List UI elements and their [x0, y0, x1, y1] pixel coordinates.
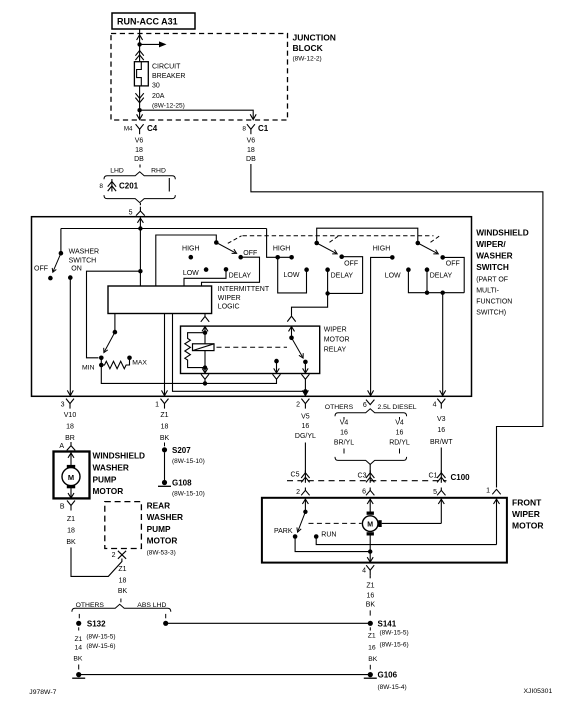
svg-text:WINDSHIELD: WINDSHIELD: [93, 451, 146, 461]
svg-text:C5: C5: [291, 472, 300, 479]
svg-text:REAR: REAR: [147, 501, 171, 511]
LHD RHD split bracket C201: [139, 165, 141, 168]
svg-text:16: 16: [367, 592, 375, 599]
relay coil resistor: [185, 333, 205, 368]
switch 2 LOW contact: [304, 267, 309, 272]
svg-text:LOW: LOW: [385, 273, 401, 280]
svg-text:WASHER: WASHER: [69, 248, 99, 255]
svg-text:C100: C100: [451, 473, 471, 482]
svg-text:Z1: Z1: [74, 636, 82, 643]
svg-text:1: 1: [486, 488, 490, 495]
svg-text:WIPER: WIPER: [512, 509, 540, 519]
wire washer B to rear washer connector: [71, 548, 122, 577]
washer switch feed wire: [60, 229, 62, 254]
wire logic to relay coil connector: [204, 314, 206, 317]
wire OFF3 to rail: [443, 257, 465, 292]
svg-text:6: 6: [363, 402, 367, 409]
delay pot wiper blade: [104, 332, 115, 352]
svg-text:SWITCH): SWITCH): [476, 310, 506, 317]
svg-text:4: 4: [433, 402, 437, 409]
svg-text:CIRCUIT: CIRCUIT: [152, 64, 181, 71]
svg-text:V4: V4: [340, 419, 349, 426]
svg-text:BLOCK: BLOCK: [293, 43, 324, 53]
svg-text:(8W-15-10): (8W-15-10): [172, 491, 205, 498]
svg-text:2: 2: [296, 489, 300, 496]
svg-text:S207: S207: [172, 446, 191, 455]
svg-text:18: 18: [135, 147, 143, 154]
delay pot wiper pivot: [113, 330, 118, 335]
wire pin1 dash: [164, 443, 166, 447]
svg-text:2: 2: [296, 402, 300, 409]
relay blade: [292, 338, 303, 357]
switch2 output rail: [328, 292, 363, 294]
svg-text:V4: V4: [395, 419, 404, 426]
switch 1 HIGH contact: [189, 255, 194, 260]
wire pivot2 to pivot3 rail: [317, 228, 418, 243]
svg-text:RUN: RUN: [321, 532, 336, 539]
OTHERS ABS-LHD split bracket: [72, 604, 171, 612]
svg-text:M: M: [68, 473, 74, 482]
wire S141 to S132 branch: [166, 622, 371, 624]
B+ rail wire: [61, 228, 267, 230]
svg-text:4: 4: [362, 568, 366, 575]
svg-text:16: 16: [437, 427, 445, 434]
wire feed to LOW2 contact: [278, 257, 307, 293]
svg-text:OTHERS: OTHERS: [76, 602, 105, 609]
wire branch to C1: [140, 110, 254, 119]
wire to pin 4 exit: [369, 552, 371, 562]
wire logic to switch1 pivot: [156, 235, 217, 286]
park switch dashed link to motor: [309, 522, 362, 524]
node switch3 output junction: [441, 291, 445, 295]
wire switch2 output to wiper relay: [292, 293, 328, 315]
wire logic output to pin 1: [164, 314, 166, 396]
svg-text:DELAY: DELAY: [430, 273, 453, 280]
wire washer ON to pin 3: [69, 278, 71, 396]
node pin2 rail junction: [303, 389, 307, 393]
svg-text:ON: ON: [71, 265, 82, 272]
pin 6 merge bracket: [335, 457, 407, 465]
relay coil: [204, 333, 206, 368]
wire pin1 to RUN contact: [496, 499, 498, 545]
connector into relay top right: [287, 316, 295, 321]
intermittent wiper logic box: [108, 286, 212, 314]
svg-text:18: 18: [161, 424, 169, 431]
svg-text:LOW: LOW: [284, 272, 300, 279]
relay armature pivot: [289, 336, 294, 341]
wire relay coil bottom exit: [204, 368, 206, 373]
rear washer pump motor dashed box: [105, 502, 142, 549]
svg-text:HIGH: HIGH: [273, 245, 291, 252]
svg-text:6: 6: [362, 488, 366, 495]
svg-text:BR/YL: BR/YL: [334, 440, 354, 447]
front wiper motor armature: [362, 516, 378, 532]
svg-text:18: 18: [67, 527, 75, 534]
wire relay right contact exit: [304, 362, 306, 373]
wire to delay pot MIN: [87, 271, 141, 358]
svg-text:MAX: MAX: [132, 360, 147, 367]
svg-text:Z1: Z1: [118, 566, 126, 573]
node motor output junction: [368, 549, 372, 553]
svg-text:SWITCH: SWITCH: [476, 262, 509, 272]
wire DELAY1 to logic: [184, 269, 226, 286]
splice S207: [162, 447, 167, 452]
svg-text:RUN-ACC A31: RUN-ACC A31: [117, 17, 178, 27]
wire pin6 to motor: [369, 499, 371, 512]
svg-text:DB: DB: [246, 156, 256, 163]
svg-text:MIN: MIN: [82, 364, 95, 371]
svg-text:RELAY: RELAY: [324, 347, 347, 354]
svg-text:30: 30: [152, 83, 160, 90]
svg-text:WASHER: WASHER: [476, 251, 512, 261]
svg-text:BK: BK: [73, 655, 83, 662]
svg-text:J978W-7: J978W-7: [29, 689, 56, 696]
svg-text:MOTOR: MOTOR: [512, 521, 543, 531]
svg-text:DELAY: DELAY: [331, 272, 354, 279]
washer pump motor armature: [70, 453, 72, 468]
switch 3 OFF contact: [440, 255, 445, 260]
switch 2 blade: [317, 243, 336, 253]
ground rail S132 to G106: [76, 672, 81, 677]
svg-text:B: B: [60, 504, 65, 511]
wire from RUN-ACC A31 into junction block: [139, 29, 141, 62]
svg-text:S141: S141: [378, 619, 397, 628]
svg-text:LOW: LOW: [183, 270, 199, 277]
svg-text:2.5L DIESEL: 2.5L DIESEL: [378, 404, 417, 411]
switch 1 LOW contact: [204, 267, 209, 272]
wire DELAY2 to rail: [327, 270, 329, 294]
svg-text:1: 1: [155, 402, 159, 409]
splice S141: [368, 621, 373, 626]
svg-text:XJI05301: XJI05301: [524, 688, 553, 695]
windshield wiper washer switch box: [32, 217, 472, 397]
svg-text:(8W-12-25): (8W-12-25): [152, 103, 185, 110]
svg-text:OFF: OFF: [446, 261, 460, 268]
delay pot resistor: [99, 363, 104, 368]
svg-text:OTHERS: OTHERS: [325, 404, 354, 411]
switch 1 OFF contact: [238, 255, 243, 260]
node feed junction: [137, 42, 141, 46]
svg-text:(8W-15-5): (8W-15-5): [86, 634, 115, 641]
wire switch3 output to pin 4: [442, 293, 444, 396]
svg-text:V5: V5: [301, 414, 310, 421]
RHD wire stub: [168, 178, 170, 192]
fuse box label RUN-ACC A31: [112, 13, 195, 29]
wire relay left contact exit: [276, 361, 278, 373]
wire LOW3 to rail: [408, 270, 464, 293]
switch 1 DELAY contact: [224, 267, 229, 272]
switch 3 HIGH contact: [390, 255, 395, 260]
connector chevrons on feed wire: [135, 51, 143, 56]
switch 3 pivot: [416, 241, 421, 246]
switch 1 blade: [216, 243, 235, 253]
svg-text:18: 18: [66, 424, 74, 431]
svg-text:MOTOR: MOTOR: [324, 337, 350, 344]
svg-text:A: A: [59, 443, 64, 450]
wire pin4 to C100: [440, 448, 442, 474]
svg-text:C1: C1: [429, 472, 438, 479]
svg-text:C1: C1: [258, 124, 269, 133]
relay contact right: [303, 360, 308, 365]
svg-text:MOTOR: MOTOR: [93, 486, 124, 496]
wire rail to pin 2: [304, 391, 306, 395]
svg-text:C201: C201: [119, 182, 139, 191]
svg-text:14: 14: [74, 645, 82, 652]
svg-text:RHD: RHD: [151, 167, 166, 174]
svg-text:C4: C4: [147, 124, 158, 133]
switch 3 blade: [418, 243, 437, 253]
wire pin6 merge to C100: [369, 464, 371, 473]
svg-text:LOGIC: LOGIC: [218, 304, 240, 311]
svg-text:BR/WT: BR/WT: [430, 439, 453, 446]
node delay pot feed junction: [138, 269, 142, 273]
svg-text:OFF: OFF: [344, 260, 358, 267]
connector C100 dashed line: [287, 480, 447, 482]
node B+ rail junction: [138, 226, 142, 230]
svg-text:MULTI-: MULTI-: [476, 288, 499, 295]
ganged switch dashed link: [228, 236, 242, 244]
svg-text:WASHER: WASHER: [93, 463, 129, 473]
svg-text:WIPER: WIPER: [218, 295, 241, 302]
svg-text:Z1: Z1: [160, 412, 168, 419]
svg-text:S132: S132: [87, 619, 106, 628]
relay contact left: [274, 359, 279, 364]
wire motor bottom to pin4 node: [369, 536, 371, 552]
switch 2 OFF contact: [339, 254, 344, 259]
node ABS LHD branch: [163, 621, 168, 626]
svg-text:OFF: OFF: [243, 250, 257, 257]
wire main feed down: [139, 229, 141, 287]
node relay coil bottom junction: [203, 365, 207, 369]
svg-text:G108: G108: [172, 479, 192, 488]
svg-text:(8W-53-3): (8W-53-3): [147, 550, 176, 557]
svg-text:LHD: LHD: [110, 167, 124, 174]
svg-text:PUMP: PUMP: [93, 475, 117, 485]
svg-text:16: 16: [340, 430, 348, 437]
relay coil dashed link to armature: [217, 346, 288, 348]
switch 2 DELAY contact: [325, 267, 330, 272]
wire HIGH3 to pin 6: [371, 257, 393, 395]
svg-text:(8W-15-10): (8W-15-10): [172, 458, 205, 465]
svg-text:BK: BK: [66, 539, 76, 546]
park contact: [293, 534, 298, 539]
svg-text:M4: M4: [124, 125, 133, 132]
wire OFF1 to logic: [202, 257, 260, 286]
svg-text:V10: V10: [64, 412, 77, 419]
svg-text:BR: BR: [65, 435, 75, 442]
svg-text:(8W-15-6): (8W-15-6): [86, 643, 115, 650]
node switch2 feed junction: [275, 255, 280, 260]
wire S207 to G108: [164, 452, 166, 480]
svg-text:HIGH: HIGH: [373, 245, 391, 252]
svg-text:2: 2: [112, 552, 116, 559]
washer switch blade: [53, 253, 61, 271]
svg-text:JUNCTION: JUNCTION: [293, 33, 336, 43]
park switch blade: [298, 512, 305, 531]
svg-text:8: 8: [242, 125, 246, 132]
wire from C1 to front wiper motor pin 1: [251, 164, 543, 488]
svg-text:C3: C3: [358, 472, 367, 479]
wire OFF2 to rail: [342, 257, 363, 294]
svg-text:(8W-12-2): (8W-12-2): [293, 56, 322, 63]
svg-text:SWITCH: SWITCH: [69, 258, 97, 265]
switch 1 pivot: [214, 240, 219, 245]
svg-text:WIPER/: WIPER/: [476, 239, 506, 249]
run contact: [314, 534, 319, 539]
svg-text:BREAKER: BREAKER: [152, 73, 185, 80]
svg-text:WIPER: WIPER: [324, 327, 347, 334]
branch arrow to other circuits: [140, 43, 162, 45]
delay pot MAX contact: [127, 356, 132, 361]
splice S132: [76, 621, 81, 626]
svg-text:(8W-15-4): (8W-15-4): [378, 684, 407, 691]
svg-text:DELAY: DELAY: [229, 272, 252, 279]
svg-text:Z1: Z1: [368, 632, 376, 639]
svg-text:(PART OF: (PART OF: [476, 277, 508, 284]
svg-text:16: 16: [368, 644, 376, 651]
svg-text:BK: BK: [160, 435, 170, 442]
node DELAY3 junction: [425, 291, 429, 295]
node park switch pivot: [303, 510, 307, 514]
svg-text:(8W-15-5): (8W-15-5): [380, 630, 409, 637]
svg-text:18: 18: [247, 147, 255, 154]
washer switch ON contact: [68, 275, 73, 280]
wire pin5 to motor brush: [440, 499, 442, 524]
washer switch OFF contact: [48, 276, 53, 281]
svg-text:16: 16: [302, 423, 310, 430]
washer switch common: [59, 251, 64, 256]
wiper motor relay box: [181, 326, 320, 373]
svg-text:G106: G106: [378, 671, 398, 680]
svg-text:5: 5: [433, 489, 437, 496]
wire pot to relay coil rail: [101, 365, 276, 383]
windshield washer pump motor box: [54, 452, 90, 499]
svg-text:DG/YL: DG/YL: [295, 433, 316, 440]
pin 6 split bracket: [335, 409, 407, 417]
svg-text:V6: V6: [247, 138, 256, 145]
delay pot MIN contact: [99, 356, 104, 361]
node relay coil top junction: [203, 331, 207, 335]
svg-text:Z1: Z1: [67, 516, 75, 523]
node switch2 output junction: [325, 291, 329, 295]
switch 2 HIGH contact: [289, 255, 294, 260]
circuit breaker symbol: [134, 62, 148, 86]
svg-text:ABS LHD: ABS LHD: [137, 602, 166, 609]
wire feed to switch 2 contacts: [267, 229, 292, 258]
wire pin5 entry into box: [139, 217, 141, 228]
svg-text:5: 5: [129, 210, 133, 217]
wire pin2 to C100: [304, 443, 306, 474]
svg-text:3: 3: [61, 402, 65, 409]
wire DELAY3 to rail: [426, 270, 428, 293]
svg-text:20A: 20A: [152, 93, 165, 100]
svg-text:BK: BK: [368, 656, 378, 663]
svg-text:OFF: OFF: [34, 265, 48, 272]
svg-text:(8W-15-6): (8W-15-6): [380, 642, 409, 649]
svg-text:WASHER: WASHER: [147, 512, 183, 522]
switch 2 pivot: [314, 241, 319, 246]
svg-text:MOTOR: MOTOR: [147, 536, 178, 546]
svg-text:FRONT: FRONT: [512, 498, 542, 508]
svg-text:RD/YL: RD/YL: [389, 440, 410, 447]
svg-text:INTERMITTENT: INTERMITTENT: [218, 286, 270, 293]
svg-text:18: 18: [119, 578, 127, 585]
switch 3 LOW contact: [406, 267, 411, 272]
svg-text:FUNCTION: FUNCTION: [476, 299, 512, 306]
svg-text:BK: BK: [118, 588, 128, 595]
svg-text:Z1: Z1: [366, 582, 374, 589]
junction block dashed box: [111, 34, 288, 121]
svg-text:V6: V6: [135, 138, 144, 145]
svg-text:PUMP: PUMP: [147, 524, 171, 534]
delay pot wiper wire from logic: [114, 314, 116, 333]
wire below circuit breaker: [139, 86, 141, 120]
node breaker output junction: [137, 108, 141, 112]
svg-text:16: 16: [396, 430, 404, 437]
wire pin2 into park switch: [304, 499, 306, 512]
svg-text:PARK: PARK: [274, 528, 293, 535]
svg-text:8: 8: [99, 183, 103, 190]
front wiper motor box: [262, 498, 507, 563]
ground G106: [368, 672, 373, 677]
wire park contact to pin 4: [295, 537, 370, 552]
node coil rail junction: [203, 381, 207, 385]
svg-text:WINDSHIELD: WINDSHIELD: [476, 228, 529, 238]
svg-text:M: M: [367, 521, 373, 528]
svg-text:DB: DB: [134, 156, 144, 163]
svg-text:V3: V3: [437, 416, 446, 423]
wire logic output to relay contact rail: [173, 314, 306, 392]
svg-text:HIGH: HIGH: [182, 245, 200, 252]
switch 3 DELAY contact: [425, 267, 430, 272]
ground G108: [162, 480, 167, 485]
svg-text:BK: BK: [366, 601, 376, 608]
